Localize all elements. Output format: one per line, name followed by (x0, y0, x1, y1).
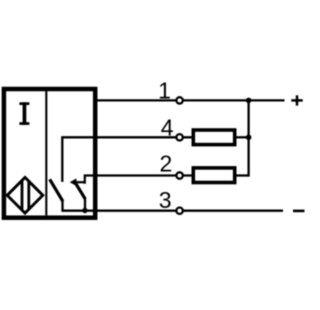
terminal 4 circle (176, 134, 182, 140)
wire: output 4 from switch contact, with fixed contact drop (62, 137, 193, 182)
wire: resistor R1 to bus (237, 136, 249, 138)
svg-text:3: 3 (159, 187, 172, 213)
wire: blade 2 bottom drop to common rail (84, 198, 86, 211)
wire row 1: supply plus line (95, 99, 285, 101)
switch blade 2 (NC contact) (74, 181, 85, 199)
svg-text:2: 2 (160, 151, 173, 177)
cell divider (45, 91, 47, 215)
switch blade 1 (NO contact, open) (50, 179, 63, 201)
inductive marking I (19, 102, 29, 125)
load resistor R1 (output 4) (193, 130, 234, 145)
actuator arrow shaft (75, 181, 85, 183)
junction: blade 2 on common rail (82, 208, 87, 213)
wire: output 2 fixed contact and row 2 out (85, 176, 193, 184)
sensor symbol inner bars (22, 178, 29, 214)
wire: resistor R2 to bus (237, 174, 249, 176)
svg-text:4: 4 (161, 115, 174, 141)
proximity sensor symbol (diamond) (7, 177, 43, 213)
wire: blade 1 bottom to common rail and row 3 out to terminal (63, 200, 284, 210)
supply minus symbol (293, 210, 305, 213)
terminal 3 circle (176, 208, 182, 214)
load resistor R2 (output 2) (193, 168, 234, 183)
supply plus symbol (291, 95, 302, 105)
terminal 1 circle (176, 97, 182, 103)
junction on row 4 (246, 135, 252, 141)
svg-text:1: 1 (158, 77, 171, 103)
bus: loads to plus rail (247, 100, 249, 176)
sensor body box (4, 89, 95, 218)
terminal 2 circle (176, 172, 182, 178)
actuator arrowhead (70, 178, 77, 186)
junction on row 1 (246, 98, 252, 104)
